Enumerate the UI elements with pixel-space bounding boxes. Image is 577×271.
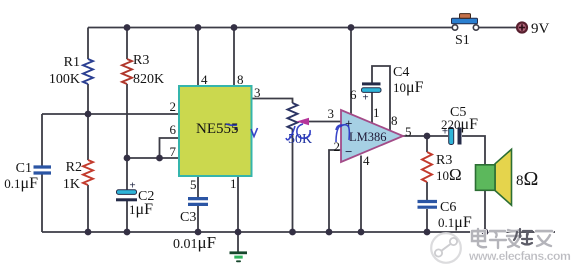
wire LM386 pin4 (360, 156, 362, 233)
junction bottom rail / pot (289, 229, 296, 236)
wire C5 to speaker (462, 136, 485, 232)
wire R3/C2 column (126, 28, 128, 60)
junction top rail / LM386 pin6 (348, 24, 355, 31)
resistor R1 (83, 59, 93, 84)
watermark dark glyph (514, 229, 532, 245)
capacitor C1 (34, 167, 52, 173)
wire LM386 pin2 (329, 150, 341, 232)
wire pin6 bracket (160, 138, 180, 158)
junction output / R3b tap (424, 133, 431, 140)
wire pot bottom (292, 129, 294, 232)
watermark logo circle (431, 233, 462, 264)
wire wiper to LM386 + (308, 121, 341, 123)
resistor R2 (83, 160, 93, 185)
resistor R3 10ohm (422, 152, 432, 182)
potentiometer wiper arrow (297, 118, 310, 125)
junction bottom rail / pin1 ground (235, 229, 242, 236)
junction bottom rail / LM386 pin4 (358, 229, 365, 236)
junction node pin2 / R1-R2 (85, 111, 92, 118)
op-amp U2 LM386 triangle (341, 110, 403, 162)
junction bottom rail / C6 (424, 229, 431, 236)
speaker LS 8ohm (476, 149, 512, 205)
wire pin4 drop (197, 28, 199, 87)
junction top rail / pin4 (195, 24, 202, 31)
wire R3b/C6 column (426, 136, 428, 152)
wire R1/R2 column (87, 28, 89, 60)
wire bottom rail (42, 231, 555, 233)
wire pin5/C3 column (197, 176, 199, 197)
wire top rail (88, 27, 452, 29)
wire pin7 line (127, 157, 179, 159)
watermark CJK-like glyph strokes (drawn) (472, 229, 552, 248)
junction bottom rail / LM386 pin2 (326, 229, 333, 236)
capacitor C2 electrolytic (116, 180, 137, 202)
wire C4 bracket pins 1-8 (371, 93, 373, 124)
IC NE555 (179, 86, 252, 176)
capacitor C3 (188, 199, 208, 205)
junction bottom rail / R2 (85, 229, 92, 236)
wire pin1 column to ground (237, 176, 239, 252)
wire output pin5 (403, 135, 448, 137)
junction pin7 / pin6 bracket (156, 155, 163, 162)
junction bottom rail / C2 (124, 229, 131, 236)
junction top rail / R3 (124, 24, 131, 31)
capacitor C4 electrolytic (362, 82, 382, 103)
wire C1 column (41, 114, 43, 166)
junction bottom rail / C3 (195, 229, 202, 236)
svg-text:www.elecfans.com: www.elecfans.com (468, 249, 571, 263)
wire pin2 line (42, 113, 179, 115)
ground (230, 251, 248, 262)
wire pin3 to pot (251, 99, 293, 104)
potentiometer RP 50K (288, 103, 298, 129)
capacitor C6 (418, 202, 438, 208)
wire top rail right segment to 9V (479, 27, 517, 29)
junction pin7 / R3-C2 (124, 155, 131, 162)
resistor R3 820K (122, 59, 132, 84)
switch S1 (452, 14, 479, 31)
ink dot after NE555 (235, 127, 238, 130)
wire pin8 drop (233, 28, 235, 87)
wire pin6 drop LM386 (350, 28, 352, 115)
junction top rail / pin8 (231, 24, 238, 31)
battery terminal 9V (517, 23, 527, 33)
capacitor C5 electrolytic (442, 126, 462, 145)
junction bottom rail / speaker (482, 229, 489, 236)
